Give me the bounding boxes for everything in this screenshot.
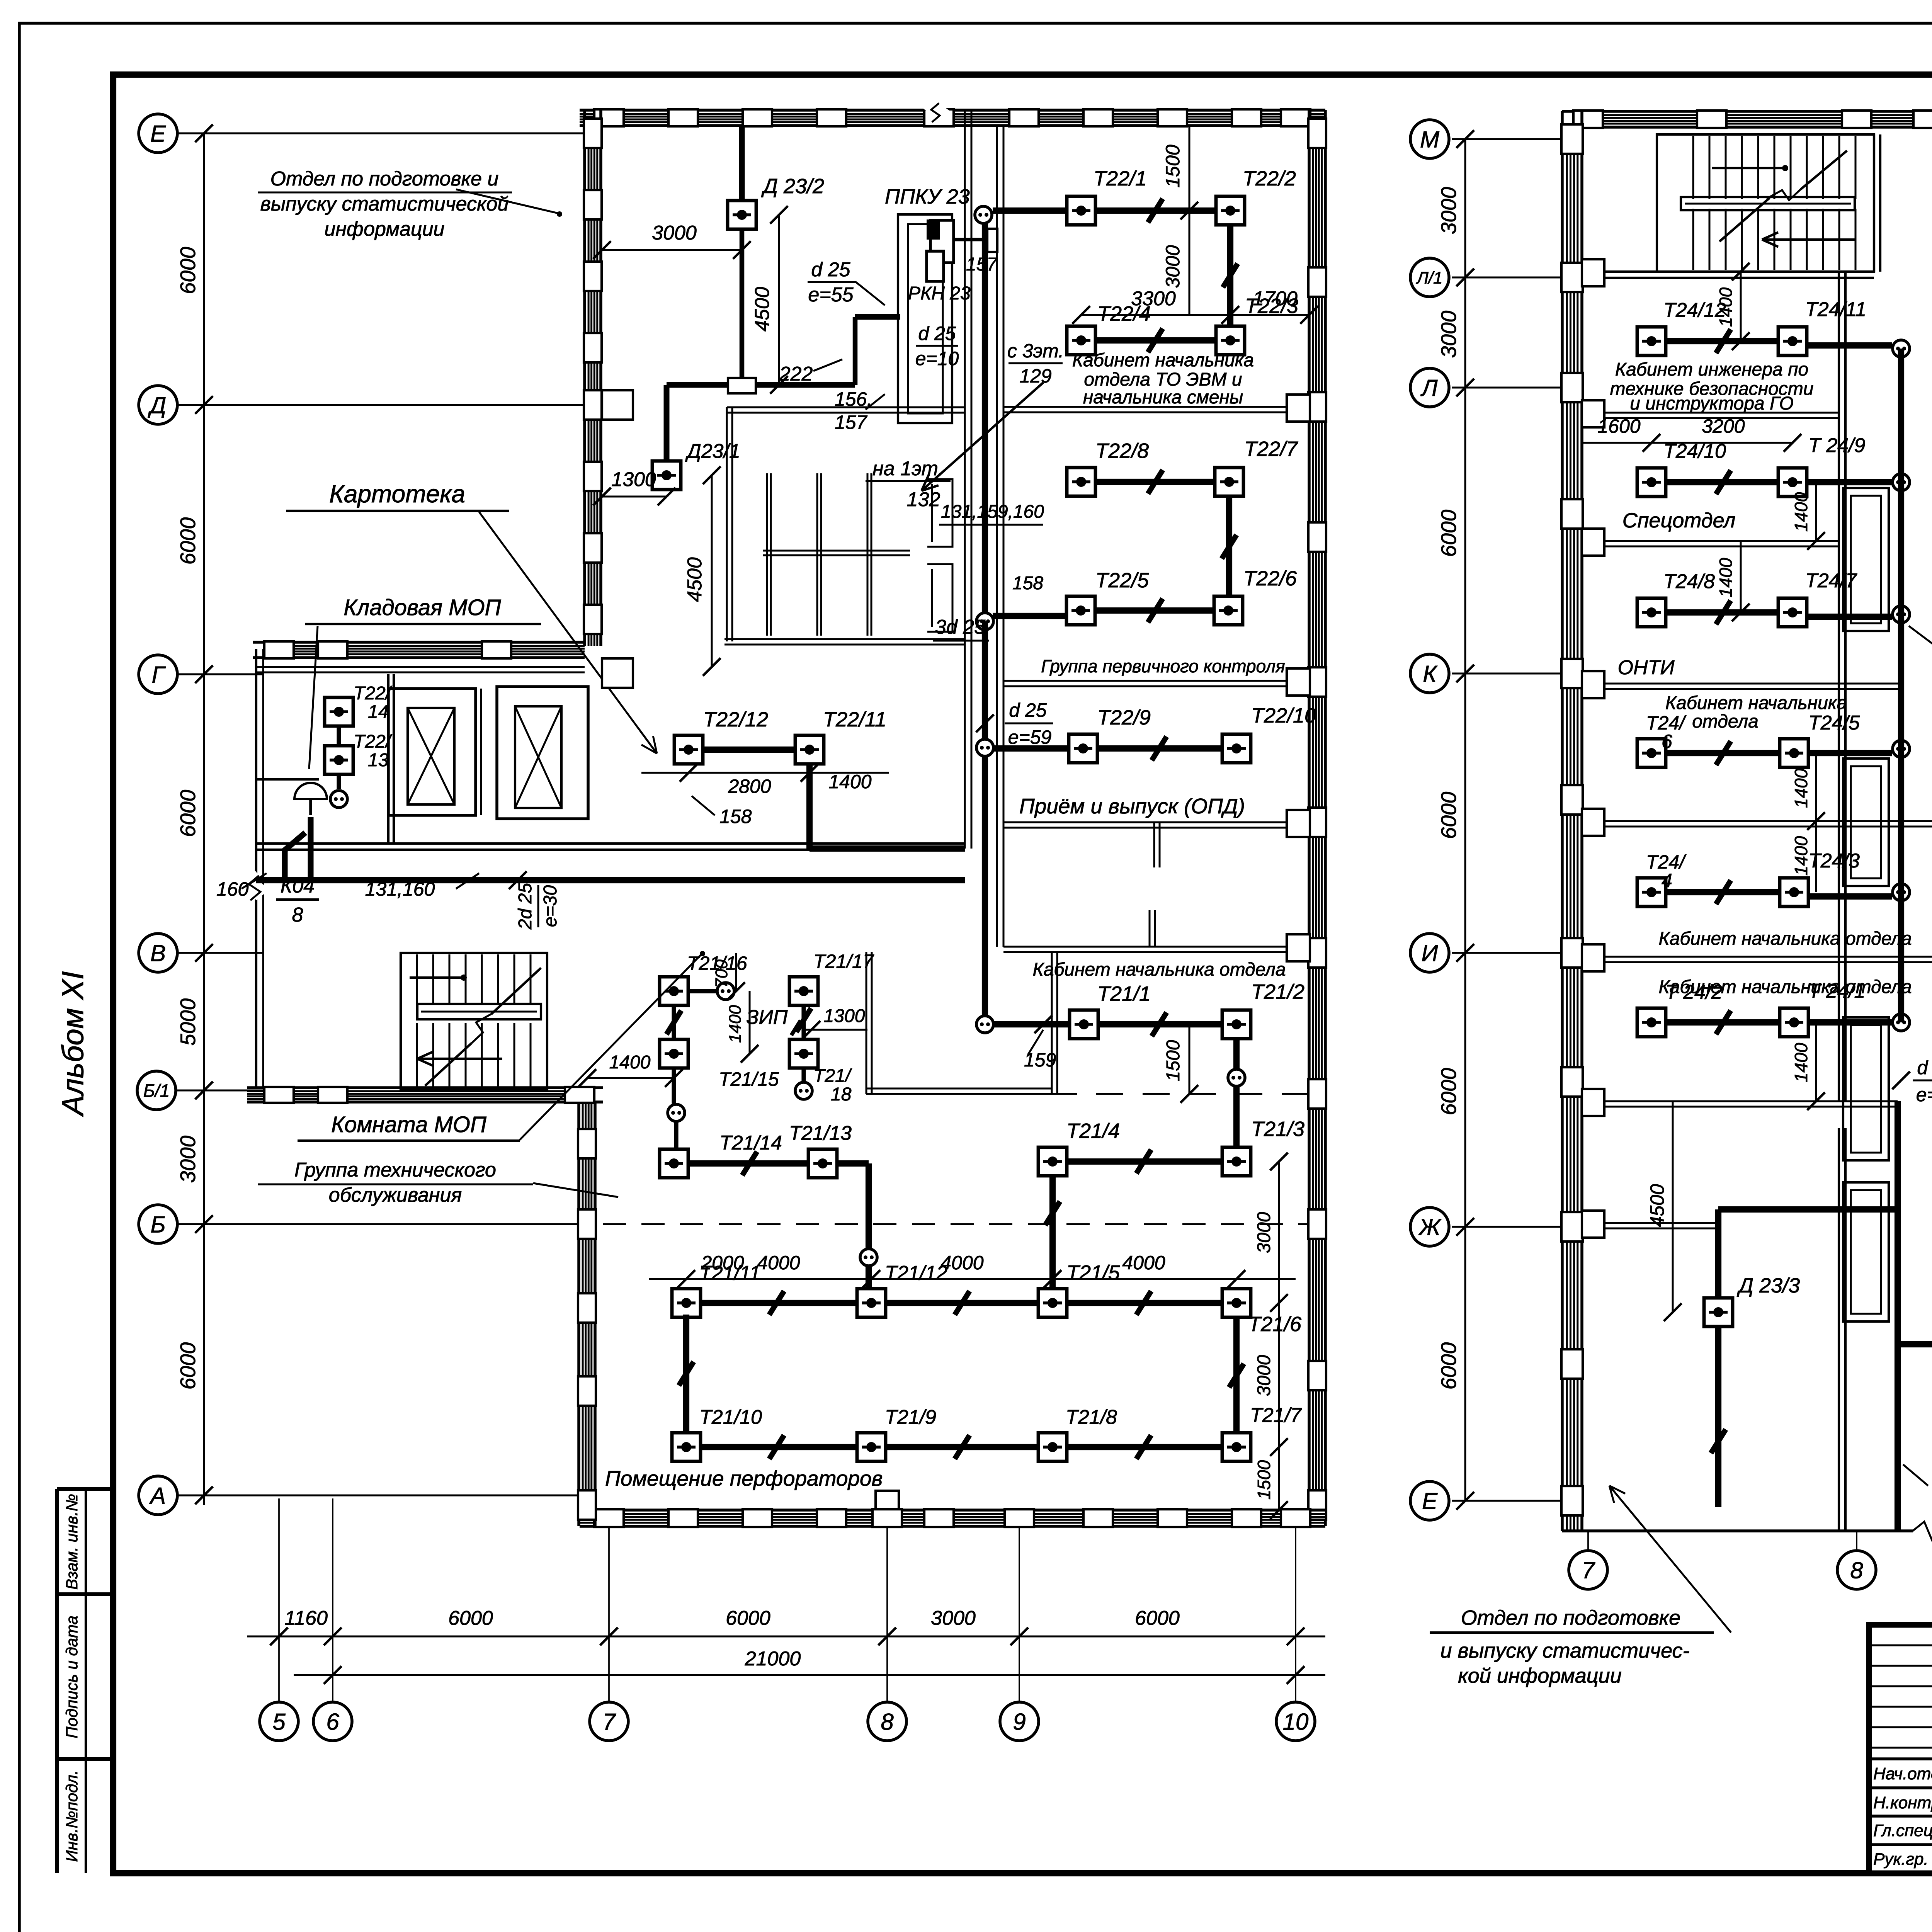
axis row Ж [1452, 1226, 1562, 1228]
svg-text:6000: 6000 [1135, 1607, 1180, 1629]
svg-text:5000: 5000 [176, 998, 200, 1046]
wardrobe 2 [1843, 759, 1889, 886]
wire Т21/11 down to Т21/10 [683, 1315, 689, 1433]
wire Т22/12 to Т22/11 [703, 747, 795, 753]
svg-text:8: 8 [292, 904, 303, 926]
bottom wall break symbol [1913, 1522, 1932, 1540]
stair arrow up flight [410, 976, 464, 979]
detector Т22/3 [1216, 326, 1245, 355]
axis circle 10 left plan [1276, 1702, 1315, 1741]
detector Т21/9 [857, 1433, 886, 1461]
bottom dimension chain 1160 6000 6000 3000 6000 [247, 1636, 1325, 1638]
svg-text:Комната МОП: Комната МОП [331, 1112, 487, 1137]
svg-text:и выпуску статистичес-: и выпуску статистичес- [1440, 1639, 1690, 1662]
detector Т22/10 [1222, 734, 1251, 763]
svg-text:6000: 6000 [1437, 791, 1461, 839]
svg-text:222: 222 [779, 363, 813, 385]
svg-text:1400: 1400 [1791, 836, 1811, 876]
wire Д23/3 down [1715, 1327, 1721, 1507]
svg-text:131,160: 131,160 [365, 878, 435, 900]
corridor right wall vertical [996, 126, 998, 947]
wire Т21/6 down to Т21/7 [1233, 1318, 1240, 1433]
wire Т22/4 to Т22/3 [1095, 337, 1216, 344]
svg-text:И: И [1422, 940, 1438, 966]
detector Т24/2 [1637, 1008, 1666, 1037]
wire Т21/9 to Т21/8 [886, 1444, 1038, 1450]
svg-text:Т22/1: Т22/1 [1094, 167, 1147, 190]
wire Т24/8 to Т24/7 [1666, 609, 1778, 616]
svg-text:6000: 6000 [176, 247, 200, 294]
svg-text:158: 158 [1012, 573, 1043, 594]
svg-text:Б: Б [150, 1212, 165, 1238]
svg-text:Спецотдел: Спецотдел [1622, 509, 1736, 532]
partition top of Кабинет начальника отдела [1003, 946, 1309, 948]
svg-text:7: 7 [1582, 1558, 1595, 1583]
leader Картотека [479, 512, 657, 753]
svg-text:129: 129 [1019, 365, 1051, 387]
svg-text:1300: 1300 [824, 1006, 865, 1026]
wire Т21/2 down [1233, 1039, 1240, 1068]
detector Т22/12 [674, 735, 703, 764]
svg-text:157: 157 [835, 412, 868, 433]
svg-text:6000: 6000 [1437, 1342, 1461, 1389]
svg-text:на 1эт.: на 1эт. [872, 457, 944, 480]
detector Т22/4 [1067, 326, 1095, 355]
svg-text:Т21/9: Т21/9 [885, 1406, 936, 1429]
svg-text:4500: 4500 [684, 557, 706, 602]
wardrobe 4 [1843, 1182, 1889, 1321]
svg-text:Б/1: Б/1 [143, 1081, 170, 1101]
svg-text:Т24/5: Т24/5 [1808, 712, 1860, 734]
wire Т21/12 to Т21/5 [886, 1300, 1038, 1306]
left plan upper left wall with windows [583, 110, 586, 646]
detector Т21/4 [1038, 1147, 1067, 1176]
axis circle 5 [260, 1702, 298, 1741]
svg-text:Гл.спец.: Гл.спец. [1873, 1821, 1932, 1840]
svg-text:информации: информации [325, 218, 445, 240]
title block frame [1869, 1625, 1932, 1873]
dimension 1600 3200 [1582, 442, 1793, 444]
svg-text:3d 25: 3d 25 [935, 616, 986, 638]
svg-text:Д23/1: Д23/1 [685, 440, 740, 463]
Картотека room left wall [726, 407, 728, 641]
svg-text:Г: Г [152, 662, 166, 688]
partition ЗИП room left wall [866, 952, 867, 1094]
wire Т24/5 to riser [1808, 750, 1892, 756]
elevator shaft divider walls [475, 689, 477, 815]
svg-text:e=55: e=55 [808, 284, 854, 306]
axis row Г [177, 673, 263, 675]
stair right wall [1873, 134, 1875, 272]
svg-text:ОНТИ: ОНТИ [1618, 656, 1675, 679]
wire Т21/13 right and down [837, 1160, 869, 1167]
right plan left wall with windows [1561, 111, 1564, 1531]
detector Т21/5 [1038, 1289, 1067, 1317]
svg-text:Т21/12: Т21/12 [885, 1262, 947, 1284]
detector Д23/1 [652, 461, 681, 490]
wall stub down from партиция [1153, 822, 1155, 867]
wire Т24/3 to riser [1808, 893, 1892, 900]
axis row Д [177, 404, 585, 406]
svg-text:Л/1: Л/1 [1416, 269, 1443, 287]
svg-text:Т21/: Т21/ [813, 1066, 852, 1086]
detector Т21/15 [660, 1039, 688, 1068]
junction small below Т22/13 [330, 791, 347, 808]
partition below Кабинет ТО ЭВМ [1003, 406, 1309, 408]
detector Т24/1 [1780, 1008, 1808, 1037]
detector Т22/14 [325, 697, 353, 726]
svg-text:Т21/3: Т21/3 [1251, 1117, 1304, 1141]
junction riser 5 [1893, 884, 1910, 901]
svg-text:156,: 156, [835, 388, 872, 410]
detector Т22/2 [1216, 196, 1245, 225]
stairwell right plan [1657, 134, 1874, 272]
leader to room [456, 189, 558, 213]
detector Т21/3 [1222, 1147, 1251, 1176]
partition ОНТИ top [1582, 683, 1901, 685]
РКН23 box [927, 251, 944, 281]
svg-text:158: 158 [719, 806, 752, 827]
svg-text:Кладовая МОП: Кладовая МОП [344, 595, 501, 620]
svg-text:6000: 6000 [176, 517, 200, 565]
svg-text:Т21/17: Т21/17 [813, 951, 874, 972]
svg-text:начальника смены: начальника смены [1083, 387, 1243, 408]
junction under Т21/2 [1228, 1069, 1245, 1086]
svg-text:Отдел по подготовке: Отдел по подготовке [1461, 1606, 1680, 1629]
svg-text:Т22/12: Т22/12 [703, 708, 768, 731]
right plan bottom wall line [1562, 1529, 1913, 1532]
svg-text:Т22/10: Т22/10 [1251, 704, 1316, 727]
dimension 1400 rotated Т24/9 [1815, 482, 1817, 541]
partition ОНТИ/Кабинет [1582, 820, 1932, 822]
junction Т21 room [976, 1016, 993, 1033]
svg-text:Нач.отд.: Нач.отд. [1873, 1764, 1932, 1783]
svg-text:Д 23/2: Д 23/2 [761, 175, 824, 198]
svg-text:Т22/9: Т22/9 [1097, 706, 1151, 729]
svg-text:РКН 23: РКН 23 [908, 283, 971, 304]
wire Т24/6 to Т24/5 [1666, 750, 1780, 756]
svg-text:10: 10 [1283, 1709, 1309, 1735]
axis row Л [1452, 387, 1562, 389]
dimension 1300 to Д23/1 [602, 496, 667, 498]
wire Т24/2 to Т24/1 [1666, 1019, 1780, 1026]
svg-text:7: 7 [602, 1709, 616, 1735]
junction at top corridor [975, 206, 992, 223]
svg-text:1400: 1400 [1791, 768, 1811, 808]
dimension 3000 vertical [1189, 211, 1190, 315]
axis row Б [177, 1223, 579, 1225]
svg-text:6000: 6000 [176, 1342, 200, 1389]
detector Т21/13 [808, 1149, 837, 1178]
wire Т21/14 to Т21/13 [688, 1160, 808, 1167]
detector Т24/10 [1637, 468, 1666, 497]
svg-text:Т21/2: Т21/2 [1251, 980, 1304, 1003]
svg-text:Н.контр.: Н.контр. [1873, 1793, 1932, 1812]
svg-text:Инв.№подл.: Инв.№подл. [63, 1770, 81, 1862]
wall break symbol on left wall [250, 875, 262, 896]
wardrobe 3 [1843, 1017, 1889, 1160]
axis circle 6 [313, 1702, 352, 1741]
detector Т21/8 [1038, 1433, 1067, 1461]
svg-text:1500: 1500 [1254, 1460, 1274, 1500]
dimension 1400 rotated near Т21/15 [749, 991, 751, 1054]
stair diagonal with break [425, 1043, 471, 1086]
svg-text:Альбом XI: Альбом XI [56, 971, 90, 1117]
wire corridor riser to lower rooms [982, 755, 988, 1015]
wire junction to Т21/3 [1233, 1087, 1240, 1147]
dimension 3300 1700 [1081, 314, 1309, 316]
svg-text:Кабинет начальника: Кабинет начальника [1072, 350, 1254, 371]
detector Т22/13 [325, 746, 353, 774]
partition ЗИП bottom wall [866, 1088, 1052, 1090]
svg-text:Т 24/1: Т 24/1 [1808, 980, 1865, 1002]
svg-text:6000: 6000 [726, 1607, 770, 1629]
leader Кладовая МОП [309, 626, 318, 769]
corridor wall right plan [1838, 272, 1840, 1101]
detector Т22/7 [1215, 468, 1243, 496]
junction mid corridor [976, 613, 993, 630]
axis row Б/1 [177, 1090, 263, 1092]
wire to Т21/12 [866, 1267, 872, 1289]
svg-text:1400: 1400 [726, 1005, 745, 1043]
detector Т21/16 [660, 977, 688, 1005]
wire to Т22/1 row [993, 207, 1070, 214]
left plan right wall with windows [1308, 110, 1311, 1526]
svg-text:Т22/8: Т22/8 [1095, 439, 1149, 463]
wire Т21/11 to Т21/12 [701, 1300, 857, 1306]
axis circle 8 right plan [1837, 1551, 1876, 1589]
wire drop to Д23/2 [739, 126, 745, 201]
svg-text:132: 132 [907, 488, 940, 511]
wire Т21/5 to Т21/6 [1067, 1300, 1222, 1306]
detector Т21/11 [672, 1289, 701, 1317]
detector Т21/6 [1222, 1289, 1251, 1317]
left plan jut wall at Кладовая with windows [253, 641, 585, 644]
detector Т24/4 [1637, 878, 1666, 906]
detector Т22/6 [1214, 596, 1243, 625]
svg-text:Отдел по подготовке и: Отдел по подготовке и [270, 168, 499, 190]
svg-text:8: 8 [1850, 1558, 1863, 1583]
partition left of elevators [387, 674, 389, 844]
wire Т22/5 to corridor [993, 613, 1066, 619]
stair arrow lower flight [417, 1058, 502, 1060]
margin stamp table columns [55, 1489, 59, 1873]
stair mid landing rail [417, 1004, 541, 1019]
wire Т24/12 to Т24/11 [1666, 338, 1778, 344]
junction at Приём [976, 739, 993, 756]
svg-text:3000: 3000 [931, 1607, 976, 1629]
wire Д23/1 drop [664, 385, 670, 461]
svg-text:2000: 2000 [701, 1252, 744, 1274]
svg-text:Т22/5: Т22/5 [1095, 569, 1149, 592]
svg-text:1400: 1400 [609, 1052, 651, 1073]
wire Т22/8 to Т22/7 [1095, 479, 1215, 485]
wardrobe 1 [1843, 488, 1889, 631]
dimension 1300 ЗИП [804, 1029, 867, 1031]
svg-text:К04: К04 [281, 875, 315, 897]
axis circle 9 left plan [1000, 1702, 1039, 1741]
axis row Е right plan [1452, 1500, 1562, 1502]
right plan bottom axis stems [1587, 1531, 1589, 1551]
svg-text:К: К [1423, 661, 1438, 687]
svg-text:Помещение перфораторов: Помещение перфораторов [605, 1466, 883, 1490]
wire Т24/7 to riser [1807, 614, 1892, 620]
wire Т21/16 junction [688, 989, 716, 993]
Картотека shelving racks [766, 473, 768, 636]
bottom dimension 21000 [294, 1674, 1325, 1676]
svg-text:3000: 3000 [652, 222, 697, 244]
svg-text:6000: 6000 [448, 1607, 493, 1629]
svg-text:ЗИП: ЗИП [747, 1006, 788, 1029]
svg-text:Группа первичного контроля: Группа первичного контроля [1041, 656, 1285, 676]
svg-text:Е: Е [150, 121, 166, 147]
wire Т21/8 to Т21/7 [1067, 1444, 1222, 1450]
dimension 1400 rotated стена-Т24/11 [1740, 272, 1742, 341]
main horizontal wire 131 160 [256, 877, 965, 883]
svg-text:Группа технического: Группа технического [294, 1159, 496, 1181]
right plan dimension chain [1464, 139, 1466, 1501]
partition И row lower [1582, 1100, 1898, 1102]
junction riser 3 [1893, 606, 1910, 623]
svg-text:Т22/7: Т22/7 [1244, 437, 1298, 461]
svg-text:1400: 1400 [1716, 558, 1736, 597]
perforator room left wall with windows [577, 1102, 580, 1526]
svg-text:8: 8 [881, 1709, 894, 1735]
stairwell left plan [401, 953, 547, 1090]
dimension 1500 rotated bottom [1278, 1447, 1280, 1510]
partition Кабинет нач отдела 2 [1582, 956, 1932, 958]
svg-text:Т21/1: Т21/1 [1097, 982, 1151, 1005]
svg-text:1700: 1700 [1253, 287, 1298, 310]
svg-text:1400: 1400 [828, 771, 871, 793]
wire corridor riser upper [982, 215, 988, 621]
svg-text:1600: 1600 [1597, 415, 1640, 437]
svg-text:5: 5 [272, 1709, 286, 1735]
detector Т24/9 [1778, 468, 1807, 497]
wire branch to Д23/3 [1718, 1206, 1898, 1213]
dimension 4500 vertical to Д23/1 [711, 475, 713, 667]
wire corridor riser lower [982, 621, 988, 748]
dimension 4500 rotated [1672, 1101, 1674, 1312]
svg-text:и инструктора ГО: и инструктора ГО [1630, 393, 1794, 414]
svg-text:отдела: отдела [1692, 711, 1759, 732]
svg-text:Л: Л [1420, 375, 1438, 401]
axis row К [1452, 673, 1562, 675]
dimension 4500 vertical [778, 215, 780, 385]
elevator lobby upper wall at Г [256, 666, 585, 668]
partition Спецотдел top [1582, 540, 1839, 542]
svg-text:1500: 1500 [1163, 1040, 1184, 1081]
wall stub at Кабинет начальника отдела [1149, 910, 1151, 947]
svg-text:6000: 6000 [1437, 1068, 1461, 1115]
detector Т22/1 [1067, 196, 1095, 225]
svg-text:1160: 1160 [284, 1607, 328, 1629]
ППКУ device box [930, 220, 954, 263]
svg-text:9: 9 [1013, 1709, 1026, 1735]
wire Т21/4 to Т21/3 [1067, 1158, 1222, 1165]
svg-text:13: 13 [368, 750, 389, 770]
axis row В [177, 952, 263, 954]
svg-text:1400: 1400 [1791, 492, 1811, 532]
left plan lower left wall [255, 649, 257, 1088]
svg-text:6: 6 [326, 1709, 339, 1735]
detector Т21/12 [857, 1289, 886, 1317]
wire Т21/16 down to Т21/15 [672, 1005, 676, 1039]
axis circle 7 left plan [590, 1702, 628, 1741]
ППКУ23 panel [898, 214, 952, 423]
svg-text:2d 25: 2d 25 [515, 883, 536, 930]
pilaster blocks at partition junctions left plan [1287, 395, 1310, 422]
svg-text:e=50: e=50 [1916, 1084, 1932, 1105]
svg-text:6000: 6000 [176, 789, 200, 837]
dimension 2800 1400 [641, 772, 889, 774]
svg-text:Т 24/2: Т 24/2 [1665, 981, 1722, 1003]
axis row Е [177, 133, 585, 134]
svg-text:М: М [1420, 127, 1439, 153]
partition Л row [1582, 412, 1839, 414]
svg-text:1400: 1400 [1791, 1043, 1811, 1082]
partition bottom room [1582, 1222, 1718, 1224]
axis row Л/1 [1452, 277, 1562, 279]
detector Д23/3 [1704, 1298, 1733, 1327]
svg-text:Т21/8: Т21/8 [1066, 1406, 1117, 1429]
junction riser 4 [1893, 740, 1910, 757]
svg-text:ППКУ 23: ППКУ 23 [885, 185, 970, 208]
bottom axis extension lines [278, 1498, 280, 1702]
wire Т22/13 down [337, 774, 341, 789]
svg-text:4000: 4000 [757, 1252, 800, 1274]
dimension 1400 horizontal [587, 1077, 674, 1079]
phone symbol МОП [294, 783, 327, 799]
svg-text:В: В [150, 940, 166, 966]
svg-text:Т21/7: Т21/7 [1250, 1404, 1302, 1427]
axis row М [1452, 138, 1562, 140]
dimension 1400 rotated Т24/7 [1740, 541, 1742, 612]
junction below Т21/18 [795, 1082, 812, 1099]
Картотека room bottom wall [724, 638, 965, 640]
svg-text:Взам. инв.№: Взам. инв.№ [63, 1494, 81, 1590]
svg-text:Т24/7: Т24/7 [1805, 570, 1857, 592]
corridor left wall vertical [964, 110, 966, 849]
svg-text:Д 23/3: Д 23/3 [1737, 1274, 1800, 1297]
dimension 1500 vertical [1189, 126, 1190, 211]
wire Т22/14 to Т22/13 [337, 726, 341, 746]
svg-text:обслуживания: обслуживания [329, 1184, 462, 1206]
junction near Т21/16 [717, 983, 734, 1000]
svg-text:4500: 4500 [751, 287, 774, 332]
elevator shaft 2 [497, 687, 588, 819]
wire riser to ППКУ [853, 317, 858, 385]
wire Т21/17 down [801, 1005, 806, 1039]
svg-text:Е: Е [1422, 1488, 1438, 1514]
svg-text:e=10: e=10 [915, 348, 959, 369]
leader Комната МОП [520, 954, 701, 1140]
svg-text:1300: 1300 [611, 468, 656, 491]
svg-text:3300: 3300 [1131, 287, 1176, 310]
svg-text:Т21/10: Т21/10 [699, 1406, 762, 1429]
detector Т24/3 [1780, 878, 1808, 906]
svg-text:1500: 1500 [1162, 145, 1184, 187]
wire branch 222 to Д23/4 [1898, 1341, 1932, 1347]
leader Группа технического [533, 1183, 618, 1197]
detector Т22/9 [1069, 734, 1097, 763]
svg-text:4000: 4000 [940, 1252, 983, 1274]
right stair diagonal with break [1801, 151, 1847, 189]
partition Группа первичного контроля [1003, 680, 1309, 682]
junction riser 1 [1893, 340, 1910, 357]
junction riser 2 [1893, 474, 1910, 491]
elevator lobby bottom wall [256, 842, 965, 845]
